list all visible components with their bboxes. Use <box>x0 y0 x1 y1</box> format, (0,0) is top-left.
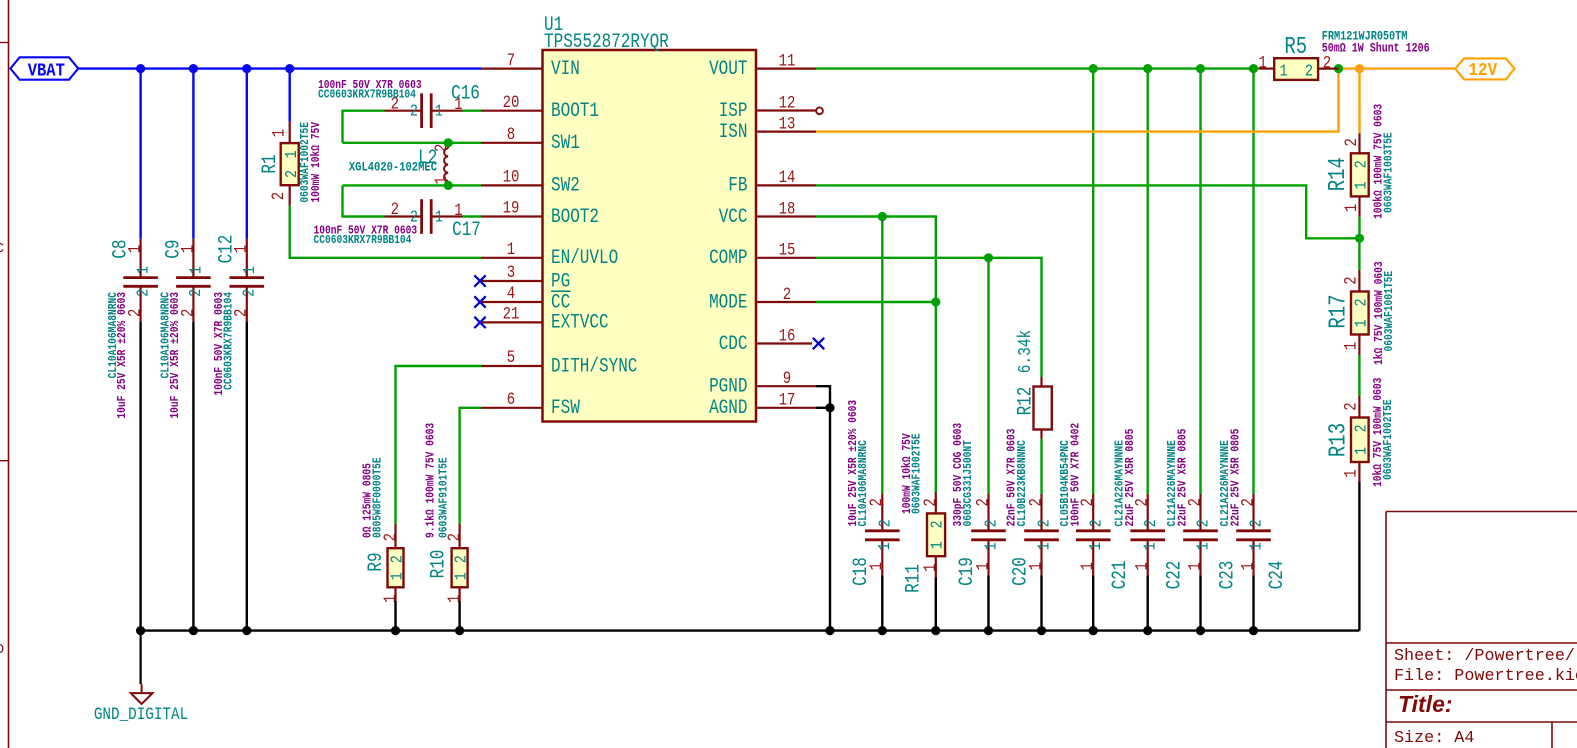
svg-text:R11: R11 <box>903 564 925 593</box>
wire MODE <box>816 301 936 303</box>
capacitor C23 <box>1166 429 1239 590</box>
svg-text:11: 11 <box>779 51 796 71</box>
wire VBAT to C9 <box>192 69 194 239</box>
svg-text:2: 2 <box>973 498 993 506</box>
junction VBAT/C9 <box>189 64 198 73</box>
svg-text:MODE: MODE <box>709 292 747 314</box>
junction ground bus x=246.8 <box>242 626 251 635</box>
svg-text:1: 1 <box>1185 562 1205 570</box>
junction ground bus x=193.4 <box>189 626 198 635</box>
svg-text:5: 5 <box>507 348 515 368</box>
svg-text:1: 1 <box>1351 181 1371 189</box>
wire R13 to ground bus <box>1358 482 1360 631</box>
svg-text:1: 1 <box>186 266 206 274</box>
svg-text:1: 1 <box>1193 542 1213 550</box>
wire R11 to ground bus <box>935 578 937 631</box>
svg-text:2: 2 <box>1086 519 1106 527</box>
no-connect pin 3 <box>474 275 485 286</box>
svg-text:1: 1 <box>1140 542 1160 550</box>
resistor R14 100k <box>1358 134 1360 154</box>
wire VOUT to C24 <box>1252 69 1254 494</box>
svg-text:C23: C23 <box>1217 561 1239 590</box>
junction ground bus x=395.5 <box>391 626 400 635</box>
junction MODE/R11 <box>931 297 940 306</box>
capacitor C12 <box>213 235 264 396</box>
junction ground bus x=1147.7 <box>1143 626 1152 635</box>
wire C12 to ground bus <box>246 322 248 631</box>
svg-text:2: 2 <box>410 101 418 121</box>
wire R12 to C20 <box>1040 439 1042 495</box>
wire FSW to R10 <box>460 408 481 524</box>
capacitor C24 <box>1219 429 1288 590</box>
svg-text:4: 4 <box>507 284 515 304</box>
wire R14 to FB junction <box>1358 217 1360 239</box>
resistor R13 10k <box>1358 396 1360 418</box>
svg-text:1: 1 <box>435 101 443 121</box>
junction ground bus x=830 <box>825 626 834 635</box>
svg-text:2: 2 <box>1341 276 1361 284</box>
sheet border <box>8 0 10 748</box>
svg-text:0603WAF1003T5E: 0603WAF1003T5E <box>1383 132 1396 213</box>
port VBAT <box>10 57 78 79</box>
no-connect pin 4 <box>474 296 485 307</box>
wire VOUT to C22 <box>1146 69 1148 494</box>
svg-text:1: 1 <box>927 541 947 549</box>
wire PGND <box>816 386 830 630</box>
svg-text:C20: C20 <box>1010 557 1032 586</box>
svg-text:2: 2 <box>927 520 947 528</box>
resistor R10 9.1k <box>459 524 461 548</box>
svg-text:1: 1 <box>1341 204 1361 212</box>
svg-text:21: 21 <box>503 304 520 324</box>
wire 12V rail <box>1339 67 1456 69</box>
wire R17 to R13 <box>1358 355 1360 396</box>
svg-text:3: 3 <box>507 263 515 283</box>
svg-text:10uF 25V X5R ±20% 0603: 10uF 25V X5R ±20% 0603 <box>169 292 182 419</box>
svg-text:R12: R12 <box>1015 387 1037 416</box>
svg-text:FSW: FSW <box>551 398 580 420</box>
port 12V <box>1455 58 1514 79</box>
svg-text:1: 1 <box>875 542 895 550</box>
junction ground bus x=140.6 <box>136 626 145 635</box>
svg-text:6.34k: 6.34k <box>1015 330 1036 374</box>
wire C16 to SW1 <box>343 111 385 143</box>
svg-text:0603WAF1002T5E: 0603WAF1002T5E <box>911 433 924 514</box>
svg-text:C9: C9 <box>163 239 185 258</box>
junction ground bus x=882.3 <box>878 626 887 635</box>
svg-text:50mΩ 1W Shunt 1206: 50mΩ 1W Shunt 1206 <box>1322 43 1430 56</box>
svg-text:1: 1 <box>1132 562 1152 570</box>
resistor R5 50m shunt <box>1259 30 1430 81</box>
junction COMP/C19 <box>984 253 993 262</box>
svg-text:1: 1 <box>1341 469 1361 477</box>
svg-text:2: 2 <box>1193 519 1213 527</box>
svg-text:CC0603KRX7R9BB104: CC0603KRX7R9BB104 <box>314 234 412 247</box>
title block <box>1386 512 1577 748</box>
svg-text:VBAT: VBAT <box>28 61 65 82</box>
wire FB junction to R17 <box>1358 238 1360 270</box>
svg-text:Title:: Title: <box>1398 691 1453 717</box>
svg-text:1: 1 <box>281 150 301 158</box>
no-connect pin 16 CDC <box>813 338 824 349</box>
svg-text:SW2: SW2 <box>551 175 580 197</box>
svg-text:C12: C12 <box>216 235 238 264</box>
svg-text:2: 2 <box>1305 61 1313 81</box>
capacitor C17 <box>314 199 481 247</box>
svg-text:CDC: CDC <box>719 333 748 355</box>
wire VBAT rail <box>78 67 481 69</box>
svg-text:7: 7 <box>507 50 515 70</box>
svg-text:CC: CC <box>551 292 570 314</box>
wire VBAT to C8 <box>139 69 141 239</box>
wire R1 to EN/UVLO <box>290 206 481 258</box>
junction ground bus x=1253.5 <box>1249 626 1258 635</box>
svg-text:XGL4020-102MEC: XGL4020-102MEC <box>349 159 437 174</box>
wire VOUT to C23 <box>1199 69 1201 494</box>
svg-text:20: 20 <box>503 93 520 113</box>
junction VOUT/C23 <box>1196 64 1205 73</box>
resistor R12 6.34k <box>1040 377 1042 387</box>
svg-text:2: 2 <box>1351 298 1371 306</box>
svg-text:0603WAF1002T5E: 0603WAF1002T5E <box>1382 399 1395 480</box>
wire ground bus <box>141 629 1360 631</box>
svg-text:C8: C8 <box>110 239 132 258</box>
svg-text:R10: R10 <box>428 550 450 579</box>
junction VOUT/C24 <box>1249 64 1258 73</box>
svg-text:22uF 25V X5R 0805: 22uF 25V X5R 0805 <box>1230 429 1243 527</box>
svg-text:1: 1 <box>1351 319 1371 327</box>
svg-text:CC0603KRX7R9BB104: CC0603KRX7R9BB104 <box>223 292 236 390</box>
capacitor C19 <box>952 423 1006 586</box>
svg-text:1: 1 <box>1238 562 1258 570</box>
junction R5/ISN <box>1334 64 1343 73</box>
svg-text:2: 2 <box>1351 424 1371 432</box>
svg-text:1: 1 <box>1246 542 1266 550</box>
svg-text:2: 2 <box>281 170 301 178</box>
svg-text:2: 2 <box>387 555 407 563</box>
wire ISN <box>816 69 1339 132</box>
op-amp U1 TPS552872RYQR buck-boost converter <box>481 15 816 422</box>
inductor L2 <box>349 143 451 186</box>
svg-text:1: 1 <box>133 266 153 274</box>
wire C22 to ground bus <box>1146 575 1148 630</box>
wire DITH/SYNC to R9 <box>396 366 482 524</box>
wire C9 to ground bus <box>192 322 194 631</box>
svg-text:17: 17 <box>779 390 796 410</box>
wire R10 to ground bus <box>458 601 460 631</box>
svg-text:C: C <box>0 241 4 257</box>
svg-text:2: 2 <box>133 289 153 297</box>
wire VOUT to C21 <box>1092 69 1094 494</box>
svg-text:1: 1 <box>269 129 289 137</box>
wire BOOT1 <box>463 109 482 111</box>
capacitor C20 <box>1006 429 1059 586</box>
svg-text:1: 1 <box>1034 542 1054 550</box>
wire C19 to ground bus <box>987 575 989 630</box>
svg-text:1: 1 <box>387 572 407 580</box>
svg-text:10: 10 <box>503 167 520 187</box>
svg-text:15: 15 <box>779 240 796 260</box>
svg-text:VCC: VCC <box>719 206 748 228</box>
svg-text:COMP: COMP <box>709 248 747 270</box>
svg-text:0805W8F0000T5E: 0805W8F0000T5E <box>372 457 385 538</box>
svg-text:Size: A4: Size: A4 <box>1394 729 1474 748</box>
svg-text:8: 8 <box>507 125 515 145</box>
svg-text:16: 16 <box>779 326 796 346</box>
svg-text:R9: R9 <box>366 552 388 571</box>
svg-text:CL10B223KB8NNNC: CL10B223KB8NNNC <box>1016 440 1029 527</box>
svg-text:1: 1 <box>1078 562 1098 570</box>
svg-text:2: 2 <box>1140 519 1160 527</box>
svg-text:2: 2 <box>451 555 471 563</box>
capacitor C21 <box>1059 423 1132 590</box>
svg-text:C16: C16 <box>451 83 480 105</box>
svg-text:10uF 25V X5R ±20% 0603: 10uF 25V X5R ±20% 0603 <box>116 292 129 419</box>
svg-text:1: 1 <box>1259 53 1267 73</box>
no-connect pin 21 <box>474 317 485 328</box>
wire C24 to ground bus <box>1252 575 1254 630</box>
svg-text:22uF 25V X5R 0805: 22uF 25V X5R 0805 <box>1124 429 1137 527</box>
wire C18 to ground bus <box>881 575 883 630</box>
svg-text:R14: R14 <box>1325 157 1352 191</box>
svg-text:1: 1 <box>451 572 471 580</box>
junction VBAT/R1 <box>285 64 294 73</box>
svg-text:1: 1 <box>981 542 1001 550</box>
svg-text:BOOT1: BOOT1 <box>551 101 599 123</box>
junction ground bus x=935.8 <box>931 626 940 635</box>
resistor R11 10k <box>935 492 937 513</box>
wire COMP <box>816 258 1042 377</box>
svg-text:1: 1 <box>1341 342 1361 350</box>
svg-text:VIN: VIN <box>551 58 580 80</box>
svg-text:100nF 50V X7R 0402: 100nF 50V X7R 0402 <box>1070 423 1083 527</box>
svg-text:VOUT: VOUT <box>709 58 748 80</box>
wire SW2 <box>343 184 482 186</box>
junction ground bus x=988.5 <box>984 626 993 635</box>
svg-text:C22: C22 <box>1164 561 1186 590</box>
svg-text:1: 1 <box>454 201 462 221</box>
svg-text:18: 18 <box>779 199 796 219</box>
wire SW1 <box>343 142 482 144</box>
capacitor C18 <box>847 400 899 586</box>
svg-text:2: 2 <box>981 519 1001 527</box>
junction VBAT/C12 <box>242 64 251 73</box>
wire C23 to ground bus <box>1199 575 1201 630</box>
wire VCC to C18 <box>881 217 883 495</box>
wire C20 to ground bus <box>1040 575 1042 630</box>
capacitor C22 <box>1114 429 1186 590</box>
wire VOUT rail <box>816 67 1259 69</box>
svg-text:14: 14 <box>779 168 796 188</box>
svg-text:1: 1 <box>240 266 260 274</box>
svg-text:1: 1 <box>1351 447 1371 455</box>
junction SW2/L2 <box>444 181 453 190</box>
svg-text:2: 2 <box>783 284 791 304</box>
svg-text:1: 1 <box>507 240 515 260</box>
svg-text:R13: R13 <box>1326 423 1353 457</box>
svg-text:19: 19 <box>503 198 520 218</box>
junction ground bus x=459.6 <box>455 626 464 635</box>
svg-text:SW1: SW1 <box>551 133 580 155</box>
svg-text:1: 1 <box>1280 61 1288 81</box>
svg-text:0603CG331J500NT: 0603CG331J500NT <box>962 440 975 527</box>
junction ground bus x=1093.2 <box>1089 626 1098 635</box>
junction ground bus x=1041.5 <box>1037 626 1046 635</box>
svg-text:R1: R1 <box>260 154 282 173</box>
svg-text:CC0603KRX7R9BB104: CC0603KRX7R9BB104 <box>318 89 416 102</box>
wire FB <box>816 185 1360 238</box>
wire C17 to SW2 <box>343 185 385 216</box>
svg-text:0603WAF1001T5E: 0603WAF1001T5E <box>1383 270 1396 351</box>
svg-text:Sheet: /Powertree/: Sheet: /Powertree/ <box>1394 647 1575 666</box>
svg-text:2: 2 <box>186 289 206 297</box>
svg-text:2: 2 <box>1341 402 1361 410</box>
svg-text:EXTVCC: EXTVCC <box>551 312 609 334</box>
resistor R1 10k <box>260 122 324 203</box>
junction VBAT/C8 <box>136 64 145 73</box>
wire C21 to ground bus <box>1092 575 1094 630</box>
svg-text:2: 2 <box>1341 138 1361 146</box>
capacitor C9 <box>160 239 211 419</box>
svg-text:PG: PG <box>551 271 570 293</box>
junction PGND/AGND <box>825 403 834 412</box>
svg-text:C18: C18 <box>850 557 872 586</box>
junction VCC/C18 <box>878 212 887 221</box>
junction SW1/L2 <box>444 138 453 147</box>
resistor R17 1k <box>1358 270 1360 292</box>
wire VBAT to R1 <box>289 69 291 122</box>
junction VOUT/C22 <box>1143 64 1152 73</box>
svg-text:9.1kΩ 100mW 75V 0603: 9.1kΩ 100mW 75V 0603 <box>425 423 438 538</box>
svg-text:1: 1 <box>435 207 443 227</box>
wire COMP to C19 <box>987 258 989 494</box>
svg-text:BOOT2: BOOT2 <box>551 206 599 228</box>
svg-text:6: 6 <box>507 390 515 410</box>
wire VBAT to C12 <box>246 69 248 239</box>
svg-text:1: 1 <box>381 595 401 603</box>
svg-text:ISP: ISP <box>719 100 748 122</box>
svg-text:R5: R5 <box>1284 34 1307 61</box>
svg-text:2: 2 <box>391 200 399 220</box>
svg-text:2: 2 <box>269 192 289 200</box>
svg-text:13: 13 <box>779 114 796 134</box>
junction ground bus x=1200.5 <box>1196 626 1205 635</box>
wire 12V to R14 <box>1358 69 1360 134</box>
svg-text:PGND: PGND <box>709 376 747 398</box>
svg-text:2: 2 <box>875 519 895 527</box>
wire R9 to ground bus <box>394 601 396 631</box>
svg-text:2: 2 <box>239 289 259 297</box>
svg-text:C17: C17 <box>452 220 481 242</box>
svg-text:CL10A106MA8NRNC: CL10A106MA8NRNC <box>857 440 870 527</box>
svg-text:AGND: AGND <box>709 398 747 420</box>
svg-text:2: 2 <box>1034 519 1054 527</box>
svg-text:0603WAF9101T5E: 0603WAF9101T5E <box>438 457 451 538</box>
svg-text:GND_DIGITAL: GND_DIGITAL <box>94 705 188 725</box>
svg-text:ISN: ISN <box>719 121 748 143</box>
wire VCC <box>816 217 936 493</box>
svg-text:12: 12 <box>779 93 796 113</box>
junction VOUT/C21 <box>1089 64 1098 73</box>
svg-text:DITH/SYNC: DITH/SYNC <box>551 356 638 378</box>
capacitor C8 <box>107 239 158 419</box>
svg-text:100mW 10kΩ 75V: 100mW 10kΩ 75V <box>310 122 323 203</box>
svg-text:FB: FB <box>728 175 747 197</box>
wire BOOT2 <box>463 215 482 217</box>
unconnected pin 12 ISP <box>816 107 823 114</box>
svg-text:2: 2 <box>1351 160 1371 168</box>
svg-text:D: D <box>0 642 4 658</box>
wire C8 to ground bus <box>139 322 141 631</box>
junction 12V/R14 <box>1355 64 1364 73</box>
capacitor C16 <box>318 79 480 128</box>
svg-text:2: 2 <box>1246 519 1266 527</box>
svg-text:TPS552872RYQR: TPS552872RYQR <box>544 32 669 54</box>
svg-text:1: 1 <box>445 595 465 603</box>
ground GND_DIGITAL <box>140 631 142 685</box>
svg-text:EN/UVLO: EN/UVLO <box>551 248 618 270</box>
svg-text:R17: R17 <box>1326 294 1353 328</box>
svg-text:C21: C21 <box>1110 561 1132 590</box>
svg-text:9: 9 <box>783 369 791 389</box>
svg-text:C19: C19 <box>957 557 979 586</box>
svg-text:1: 1 <box>1086 542 1106 550</box>
junction FB/R14/R17 <box>1355 234 1364 243</box>
svg-text:22uF 25V X5R 0805: 22uF 25V X5R 0805 <box>1177 429 1190 527</box>
resistor R9 0 ohm <box>394 524 396 548</box>
svg-text:C24: C24 <box>1267 561 1289 590</box>
wire AGND <box>816 407 830 409</box>
svg-text:File: Powertree.kicad_sch: File: Powertree.kicad_sch <box>1394 667 1577 686</box>
svg-text:12V: 12V <box>1468 60 1497 82</box>
